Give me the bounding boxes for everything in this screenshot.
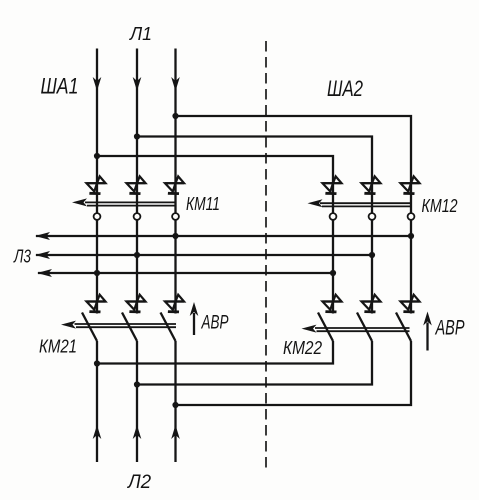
node: junction phase C tap	[172, 113, 178, 119]
wire: right phase A middle section	[332, 220, 334, 314]
contactor KM11 contact phase B (circle)	[134, 213, 141, 220]
arrow АВР (left, transfer direction up)	[190, 302, 199, 335]
node: junction phase A tap	[94, 153, 100, 159]
wire: left phase A bottom section (to Л2)	[96, 341, 98, 462]
node: junction KM21/KM22 phase B	[134, 381, 140, 387]
wire: left phase B middle section	[136, 220, 138, 314]
contactor KM21 blade phase B (open contact)	[122, 313, 137, 342]
svg-text:КМ12: КМ12	[422, 196, 458, 216]
svg-text:КМ11: КМ11	[186, 194, 220, 214]
arrow: feeder Л1 phase A flow down	[93, 77, 102, 91]
wire: left phase C middle section	[174, 220, 176, 314]
svg-text:Л1: Л1	[129, 23, 152, 44]
breaker QF right phase C (top row)	[401, 176, 420, 195]
arrow: Л2 phase A flow up	[93, 425, 102, 439]
contactor KM12 contact phase A (circle)	[330, 213, 337, 220]
breaker QF right phase A (bottom row)	[323, 295, 342, 314]
wire: tap to section 2 phase B (y=136.5)	[137, 137, 372, 214]
wire: KM22 phase C return (y=405)	[176, 341, 412, 405]
wire: left phase A middle section	[96, 220, 98, 314]
wire: tap to section 2 phase A (y=156)	[97, 156, 333, 213]
wire: KM22 phase B return (y=384.5)	[137, 341, 372, 385]
breaker QF left phase C (top row)	[165, 176, 184, 195]
contactor KM11 contact phase C (circle)	[172, 213, 179, 220]
wire: right phase B middle section	[371, 220, 373, 314]
contactor KM12 contact phase B (circle)	[369, 213, 376, 220]
breaker QF left phase A (top row)	[87, 176, 106, 195]
breaker QF left phase C (bottom row)	[165, 295, 184, 314]
breaker QF right phase B (bottom row)	[362, 295, 381, 314]
node: junction KM21/KM22 phase A	[94, 360, 100, 366]
contactor KM22 blade phase C (open contact)	[396, 313, 411, 342]
node: Л3/left phase A junction	[94, 270, 100, 276]
wire: left phase C bottom section (to Л2)	[174, 341, 176, 462]
contactor KM22 linkage (double line with arrow)	[302, 325, 410, 333]
contactor KM21 blade phase A (open contact)	[82, 313, 97, 342]
arrow: feeder Л1 phase B flow down	[133, 77, 142, 91]
wire: left phase B bottom section (to Л2)	[136, 341, 138, 462]
svg-text:ША1: ША1	[41, 74, 79, 99]
contactor KM12 contact phase C (circle)	[408, 213, 415, 220]
arrow: Л3 phase A out	[37, 269, 52, 277]
wire: tap to section 2 phase C (y=116)	[176, 116, 412, 213]
wire: outgoing line Л3 phase C (y=236)	[36, 235, 411, 237]
wire: outgoing line Л3 phase B (y=255)	[36, 254, 372, 256]
contactor KM22 blade phase B (open contact)	[357, 313, 372, 342]
arrow: Л3 phase C out	[35, 232, 50, 240]
contactor KM11 contact phase A (circle)	[94, 213, 101, 220]
wire: outgoing line Л3 phase A (y=273)	[38, 272, 333, 274]
breaker QF left phase B (bottom row)	[127, 295, 146, 314]
svg-text:Л3: Л3	[13, 247, 31, 267]
svg-text:АВР: АВР	[201, 313, 229, 334]
contactor KM21 linkage (double line with arrow)	[61, 321, 176, 329]
svg-text:КМ22: КМ22	[283, 338, 322, 358]
node: junction KM21/KM22 phase C	[172, 402, 178, 408]
wire: KM22 phase A return (y=363.5)	[97, 341, 333, 364]
arrow: Л3 phase B out	[35, 251, 50, 259]
arrow: Л2 phase C flow up	[171, 425, 180, 439]
wire: feeder Л1 phase C vertical (x=175.5) top section	[174, 49, 176, 214]
breaker QF right phase C (bottom row)	[401, 295, 420, 314]
wire: right phase C middle section	[410, 220, 412, 314]
node: Л3/right phase A junction	[330, 270, 336, 276]
arrow АВР (right, transfer direction up)	[423, 312, 432, 351]
breaker QF left phase B (top row)	[127, 176, 146, 195]
contactor KM21 blade phase C (open contact)	[161, 313, 176, 342]
contactor KM11 linkage (double line with arrow)	[72, 198, 176, 206]
wire: feeder Л1 phase B vertical (x=137) top section	[136, 49, 138, 214]
arrow: feeder Л1 phase C flow down	[171, 77, 180, 91]
svg-text:АВР: АВР	[434, 317, 464, 340]
breaker QF right phase B (top row)	[362, 176, 381, 195]
svg-text:ША2: ША2	[327, 76, 363, 101]
node: Л3/left phase C junction	[172, 233, 178, 239]
contactor KM12 linkage (double line with arrow)	[308, 199, 412, 207]
svg-text:Л2: Л2	[126, 472, 151, 493]
node: Л3/right phase B junction	[369, 252, 375, 258]
arrow: Л2 phase B flow up	[133, 425, 142, 439]
breaker QF right phase A (top row)	[323, 176, 342, 195]
node: Л3/right phase C junction	[408, 233, 414, 239]
contactor KM22 blade phase A (open contact)	[318, 313, 333, 342]
node: junction phase B tap	[134, 133, 140, 139]
wire: feeder Л1 phase A vertical (x=97) top section	[96, 49, 98, 214]
breaker QF left phase A (bottom row)	[87, 295, 106, 314]
node: Л3/left phase B junction	[134, 252, 140, 258]
svg-text:КМ21: КМ21	[39, 337, 77, 357]
section divider (dashed) between ША1 and ША2	[265, 41, 267, 468]
